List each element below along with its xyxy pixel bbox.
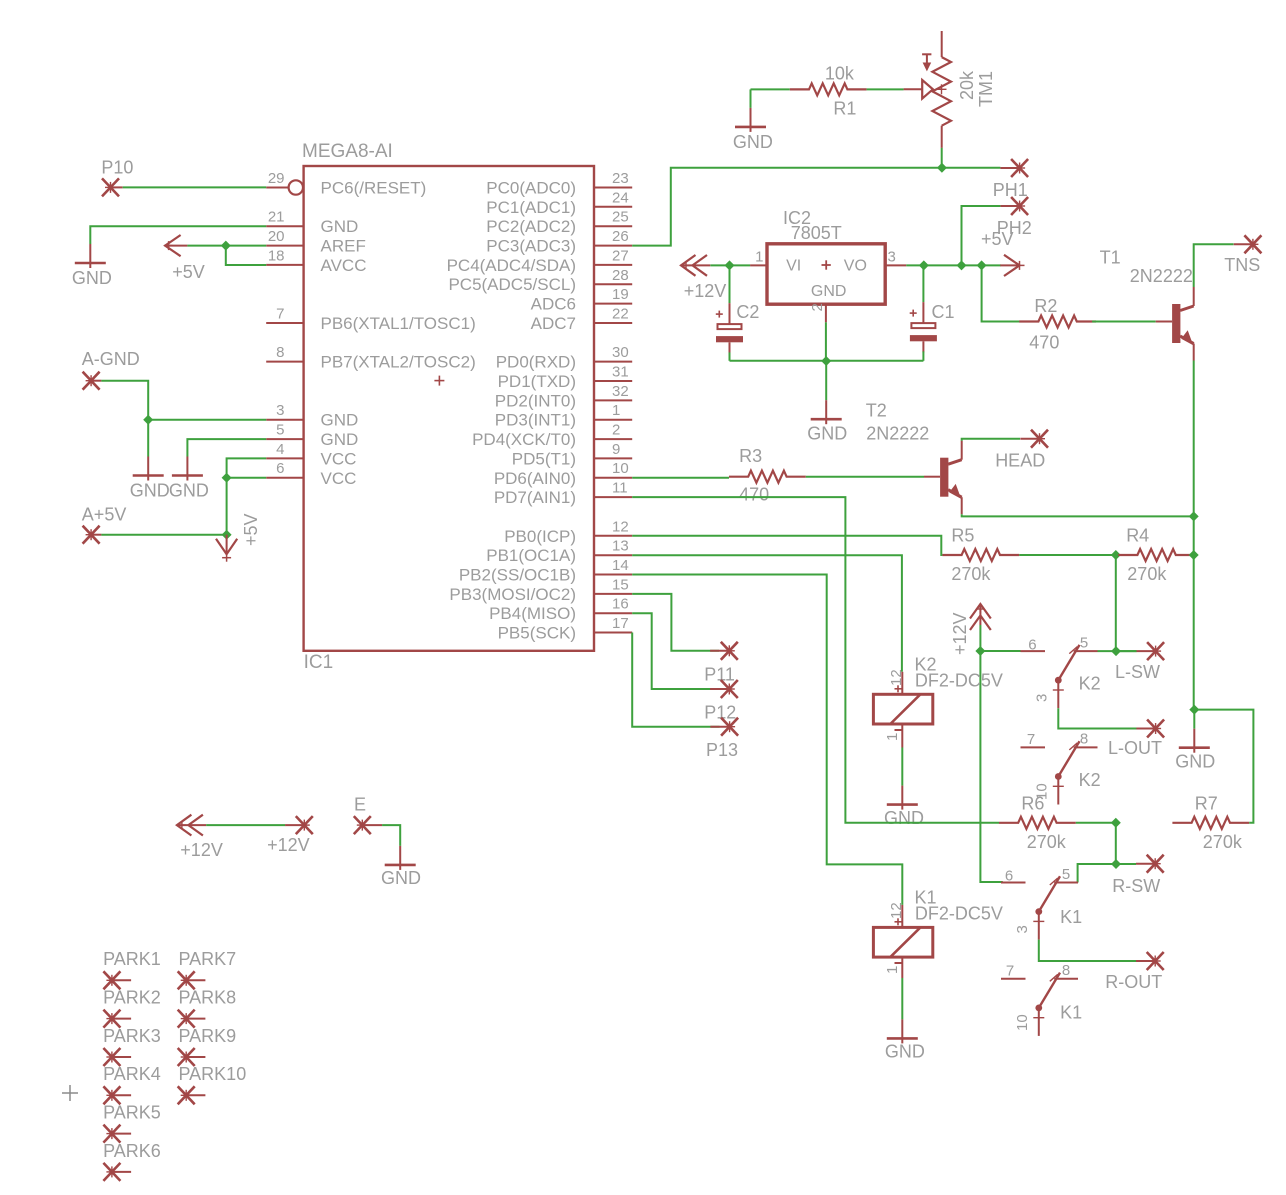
svg-text:7805T: 7805T [791,223,842,243]
svg-text:GND: GND [884,808,924,828]
transistor T1 2N2222 [1172,287,1194,361]
svg-text:P13: P13 [706,740,738,760]
wire R6R7 to R-SW [1115,823,1117,864]
label K2 (coil) [915,654,937,674]
label +12V (bottom pin) [267,835,310,855]
IC1 left pin 29 PC6(/RESET) [266,170,426,198]
K2 coil pin 12 number [888,669,905,686]
node PARK1 pin [103,971,131,989]
svg-text:8: 8 [1062,962,1070,979]
capacitor C1 [910,302,937,352]
svg-text:PARK5: PARK5 [103,1103,161,1123]
wire PH1 to pin26 [632,168,942,246]
svg-text:2N2222: 2N2222 [1130,266,1193,286]
svg-text:T1: T1 [1100,247,1121,267]
IC1 right pin 14 PB2(SS/OC1B) [459,557,632,585]
node PARK6 pin [103,1163,131,1181]
label K1 (contact A) [1060,907,1082,927]
wire junction to GND right [1193,710,1195,729]
svg-text:PD5(T1): PD5(T1) [512,449,576,468]
wire pin6 VCC [227,477,267,479]
node PH2 pin [1000,197,1028,215]
junction PH2 drop [957,260,967,270]
node PARK9 pin [178,1048,206,1066]
node PARK10 pin [178,1086,206,1104]
svg-text:K1: K1 [1060,907,1082,927]
ground GND (R1) [735,89,766,131]
label PARK1 [103,949,161,969]
svg-text:GND: GND [321,430,359,449]
svg-text:7: 7 [1006,963,1014,980]
K2 coil minus tick [895,729,902,731]
wire A-GND to pin3 [101,381,266,420]
svg-text:VO: VO [844,258,867,275]
K2 contact pin 5 number [1080,635,1088,652]
svg-text:5: 5 [1080,635,1088,652]
svg-text:GND: GND [885,1041,925,1061]
K2 coil pin 1 number [884,733,901,741]
svg-text:19: 19 [612,286,629,303]
label PH1 [993,180,1028,200]
svg-text:GND: GND [169,481,209,501]
wire C2 bottom [729,352,731,360]
wire +12V to X [206,824,285,826]
node PARK4 pin [103,1086,131,1104]
svg-text:3: 3 [1034,694,1051,702]
svg-text:PB4(MISO): PB4(MISO) [489,604,576,623]
IC1 right pin 31 PD1(TXD) [498,364,633,392]
svg-text:13: 13 [612,538,629,555]
sheet origin cross [62,1085,78,1101]
svg-text:K2: K2 [1079,770,1101,790]
svg-text:DF2-DC5V: DF2-DC5V [915,671,1003,691]
label PARK7 [179,949,237,969]
K1 contact pin 3 number [1014,925,1031,933]
label +5V (VO) [981,229,1014,249]
svg-text:PC3(ADC3): PC3(ADC3) [486,237,576,256]
svg-text:1: 1 [755,249,763,266]
svg-text:R1: R1 [833,99,856,119]
label PARK5 [103,1103,161,1123]
resistor R6 [999,817,1076,829]
node E pin [354,816,382,834]
K2 coil plus tick [895,685,902,692]
resistor R7 [1172,817,1249,829]
ground GND (K2) [887,786,918,810]
svg-text:R2: R2 [1034,296,1057,316]
label R-SW [1112,876,1160,896]
label E [354,795,366,815]
K1 coil plus tick [895,918,902,925]
K1 contact pin 6 number [1005,868,1013,885]
wire junction to AVCC [226,246,266,265]
K2 contact pin 3 number [1034,694,1051,702]
supply +5V arrow (AREF) [164,235,187,256]
svg-text:+12V: +12V [267,835,310,855]
IC1 left pin 3 GND [266,402,358,430]
wire E to GND [382,825,400,846]
svg-text:PB5(SCK): PB5(SCK) [498,624,576,643]
wire junction to PH1 [942,167,1001,169]
wire R7 right up [1194,710,1253,823]
IC1 right pin 26 PC3(ADC3) [486,228,632,256]
node PH1 pin [1000,159,1028,177]
node TNS pin [1234,235,1262,253]
svg-text:12: 12 [612,518,629,535]
svg-text:PB0(ICP): PB0(ICP) [504,527,576,546]
svg-text:R-OUT: R-OUT [1105,972,1162,992]
label P11 [704,665,735,685]
K2 contact pin 8 number [1080,731,1088,748]
label DF2-DC5V (K1) [915,904,1003,924]
IC1 left pin 4 VCC [266,441,356,469]
wire R6 to junction [1076,822,1116,824]
IC1 right pin 12 PB0(ICP) [504,518,632,546]
svg-text:MEGA8-AI: MEGA8-AI [302,141,393,162]
IC2 pin name VI [786,258,801,275]
label PARK3 [103,1026,161,1046]
svg-text:26: 26 [612,228,629,245]
svg-text:PH1: PH1 [993,180,1028,200]
svg-text:VCC: VCC [321,449,357,468]
IC1 right pin 9 PD5(T1) [512,441,632,469]
wire pin14 to K1 coil [632,575,902,905]
wire PH2 [962,206,1001,265]
svg-text:+5V: +5V [241,513,261,546]
svg-text:PC1(ADC1): PC1(ADC1) [486,198,576,217]
label PARK10 [179,1064,247,1084]
svg-text:31: 31 [612,364,629,381]
svg-text:16: 16 [612,596,629,613]
svg-text:PARK4: PARK4 [103,1064,161,1084]
supply +12V arrow (IC2) [681,255,710,276]
label IC1 [304,652,334,673]
K2 contact pin 10 number [1034,783,1051,800]
svg-text:PARK2: PARK2 [103,988,161,1008]
svg-text:11: 11 [612,480,628,497]
label TNS [1224,255,1260,275]
wire junction to L-SW pin [1116,650,1137,652]
svg-text:18: 18 [268,247,285,264]
K1 coil pin 1 number [884,966,901,974]
junction L-SW [1111,646,1121,656]
svg-text:8: 8 [276,344,284,361]
IC1 left pin 6 VCC [266,460,356,488]
node L-OUT pin [1136,720,1164,738]
svg-text:R6: R6 [1021,793,1044,813]
svg-text:VCC: VCC [321,469,357,488]
IC1 right pin 23 PC0(ADC0) [486,170,632,198]
label R6 [1021,793,1044,813]
node L-SW pin [1136,642,1164,660]
svg-text:15: 15 [612,576,629,593]
IC1 right pin 15 PB3(MOSI/OC2) [449,576,632,604]
svg-text:270k: 270k [951,564,991,584]
wire K2 pin3 to L-OUT [1058,708,1136,728]
svg-text:R5: R5 [951,526,974,546]
ground GND (left 2) [172,457,203,481]
wire pin5 GND [187,439,266,456]
IC1 left pin 8 PB7(XTAL2/TOSC2) [266,344,476,372]
node PARK5 pin [103,1125,131,1143]
junction R5 R4 [1111,550,1121,560]
label K2 (contact B) [1079,770,1101,790]
resistor R4 [1118,549,1195,561]
wire pin13 to K2 coil [632,555,902,672]
IC2 pin3 stub [885,264,906,266]
junction GND right [1189,705,1199,715]
label 10k [825,64,855,84]
IC1 left pin 5 GND [266,422,358,450]
node P12 pin [710,680,738,698]
svg-text:K2: K2 [1079,674,1101,694]
wire junction to GND sym [147,420,149,457]
junction R6 R7 [1111,818,1121,828]
label 470 (R3) [739,484,769,504]
wire +12V to IC2 pin1 [710,264,750,266]
label +12V (IC2) [684,281,727,301]
label 270k (R4) [1127,564,1167,584]
svg-text:270k: 270k [1127,564,1167,584]
svg-text:PARK3: PARK3 [103,1026,161,1046]
svg-text:L-SW: L-SW [1115,662,1160,682]
junction A+5V [222,530,232,540]
svg-text:PB6(XTAL1/TOSC1): PB6(XTAL1/TOSC1) [321,314,476,333]
svg-text:PARK8: PARK8 [179,988,237,1008]
label T1 [1100,247,1121,267]
svg-text:14: 14 [612,557,629,574]
label R1 [833,99,856,119]
svg-text:22: 22 [612,306,629,323]
svg-text:2: 2 [809,303,826,311]
label DF2-DC5V (K2) [915,671,1003,691]
wire T1 emitter down [1193,361,1195,517]
svg-text:PC0(ADC0): PC0(ADC0) [486,179,576,198]
wire pin4 VCC [227,458,267,477]
wire K1 coil to GND [901,978,903,1019]
relay contact K2 (pins 7/8/10) [1021,741,1098,804]
capacitor C2 [716,303,743,353]
IC1 left pin 7 PB6(XTAL1/TOSC1) [266,306,476,334]
svg-text:L-OUT: L-OUT [1108,738,1162,758]
wire VO row [906,264,1001,266]
svg-text:1: 1 [884,733,901,741]
label K1 (contact B) [1060,1003,1082,1023]
supply +5V arrow down (A+5V) [216,535,237,562]
junction R4 right [1189,550,1199,560]
svg-text:HEAD: HEAD [995,450,1045,470]
svg-text:PC4(ADC4/SDA): PC4(ADC4/SDA) [447,256,576,275]
svg-text:23: 23 [612,170,629,187]
K2 contact pin 6 number [1028,637,1036,654]
K2 coil bottom stub [901,724,903,748]
label GND (IC2) [807,423,847,443]
svg-text:R4: R4 [1126,526,1149,546]
svg-text:A-GND: A-GND [82,349,140,369]
K1 contact pin 8 number [1062,962,1070,979]
label GND (P10 area) [72,268,112,288]
wire junction to C2 [729,265,731,303]
label T2 [866,401,887,421]
junction R2 branch [977,260,987,270]
svg-text:PARK10: PARK10 [179,1064,247,1084]
svg-text:PC6(/RESET): PC6(/RESET) [321,179,427,198]
wire K2 coil to GND [901,748,903,786]
transistor T2 2N2222 [940,441,962,515]
svg-text:PD0(RXD): PD0(RXD) [496,353,576,372]
wire R1 to TM1 [867,88,904,90]
K1 coil top stub [901,905,903,928]
svg-text:10k: 10k [825,64,855,84]
svg-text:25: 25 [612,209,629,226]
IC1 right pin 24 PC1(ADC1) [486,189,632,217]
label A-GND [82,349,140,369]
IC1 right pin 30 PD0(RXD) [496,344,632,372]
label K2 (contact A) [1079,674,1101,694]
svg-text:1: 1 [884,966,901,974]
svg-text:PD2(INT0): PD2(INT0) [495,391,576,410]
svg-text:10: 10 [612,460,629,477]
ground GND (E) [385,846,416,870]
IC2 pin 2 number [809,303,826,311]
svg-text:GND: GND [1175,752,1215,772]
svg-text:3: 3 [276,402,284,419]
node P13 pin [710,718,738,736]
svg-text:270k: 270k [1027,832,1067,852]
K1 coil bottom stub [901,957,903,978]
T1 base stub [1156,321,1172,323]
relay coil K2 DF2-DC5V [873,694,932,724]
svg-text:PB3(MOSI/OC2): PB3(MOSI/OC2) [449,585,576,604]
K2 contact pin 7 number [1027,731,1035,748]
wire R5 to junction [1019,554,1116,556]
svg-text:P11: P11 [704,665,735,685]
node P10 pin [102,178,123,196]
svg-text:AVCC: AVCC [321,256,367,275]
wire R2 to T1 [1092,321,1156,323]
wire rail down to K1 [980,651,1002,882]
node A+5V pin [83,526,102,544]
svg-text:R-SW: R-SW [1112,876,1160,896]
wire TM1 bottom [941,148,943,168]
svg-text:270k: 270k [1203,832,1243,852]
svg-text:PD1(TXD): PD1(TXD) [498,372,576,391]
svg-text:+5V: +5V [172,262,205,282]
svg-text:1: 1 [612,402,620,419]
wire C1 bottom [922,351,924,360]
node HEAD pin [1020,430,1048,448]
svg-text:GND: GND [321,411,359,430]
svg-text:32: 32 [612,383,629,400]
label C2 [736,302,759,322]
junction C1 top [919,260,929,270]
T2 base stub [924,476,940,478]
junction AREF [221,241,231,251]
relay contact K2 (pins 6/5/3) [1021,645,1098,708]
wire T1 collector to TNS [1194,244,1234,287]
svg-text:R3: R3 [739,446,762,466]
svg-text:20: 20 [268,228,285,245]
wire rail to K2 pin6 [980,650,1020,652]
svg-text:P12: P12 [704,703,736,723]
wire pin21 GND [90,226,266,244]
resistor R2 [1019,316,1096,328]
label 270k (R7) [1203,832,1243,852]
svg-text:30: 30 [612,344,629,361]
svg-text:+12V: +12V [950,612,970,655]
svg-text:6: 6 [1005,868,1013,885]
wire pin12 to R5 [632,536,942,555]
junction rail K2 [975,646,985,656]
relay coil K1 DF2-DC5V [873,927,932,957]
label HEAD [995,450,1045,470]
ground GND (right) [1179,729,1210,753]
svg-text:ADC6: ADC6 [531,295,576,314]
junction R-SW [1111,859,1121,869]
IC1 right pin 27 PC4(ADC4/SDA) [447,247,633,275]
junction A-GND [143,415,153,425]
wire K2 pin5 to L-SW [1098,650,1137,652]
label MEGA8-AI [302,141,393,162]
label GND (K2) [884,808,924,828]
IC2 pin1 stub [750,264,767,266]
svg-text:AREF: AREF [321,237,366,256]
wire pin11 to R6 [632,497,999,823]
node R-OUT pin [1136,952,1164,970]
svg-text:GND: GND [811,283,847,300]
label 7805T [791,223,842,243]
svg-text:4: 4 [276,441,284,458]
label +5V rotated (A+5V) [241,513,261,546]
label C1 [932,302,955,322]
svg-text:TNS: TNS [1224,255,1260,275]
wire junction to R-SW pin [1116,863,1136,865]
relay contact K1 (pins 6/5/3) [1001,876,1078,939]
relay contact K1 (pins 7/8/10) [1001,973,1078,1036]
resistor R3 [729,471,806,483]
svg-text:K1: K1 [1060,1003,1082,1023]
wire A+5V [101,534,226,536]
svg-text:GND: GND [130,481,170,501]
node PARK2 pin [103,1010,131,1028]
svg-text:PD7(AIN1): PD7(AIN1) [494,488,576,507]
label PARK8 [179,988,237,1008]
K1 contact pin 7 number [1006,963,1014,980]
node P11 pin [710,642,738,660]
IC1 left pin 18 AVCC [266,247,366,275]
svg-text:12: 12 [888,902,905,919]
wire pin10 to R3 [632,477,729,479]
IC1 right pin 32 PD2(INT0) [495,383,632,411]
supply +12V arrow (bottom) [177,815,206,836]
svg-text:GND: GND [807,423,847,443]
svg-text:+5V: +5V [981,229,1014,249]
IC2 origin cross [822,260,831,269]
svg-text:R7: R7 [1195,793,1218,813]
ground GND (P10 area) [75,244,106,268]
IC1 right pin 22 ADC7 [531,306,633,334]
svg-text:6: 6 [1028,637,1036,654]
svg-text:GND: GND [381,868,421,888]
wire cap ground rail [730,360,924,362]
IC1 right pin 11 PD7(AIN1) [494,480,632,508]
label A+5V [82,505,127,525]
wire pin15 to P11 [632,594,719,651]
label 470 (R2) [1029,332,1059,352]
svg-text:+12V: +12V [684,281,727,301]
svg-text:GND: GND [733,132,773,152]
svg-text:24: 24 [612,189,629,206]
